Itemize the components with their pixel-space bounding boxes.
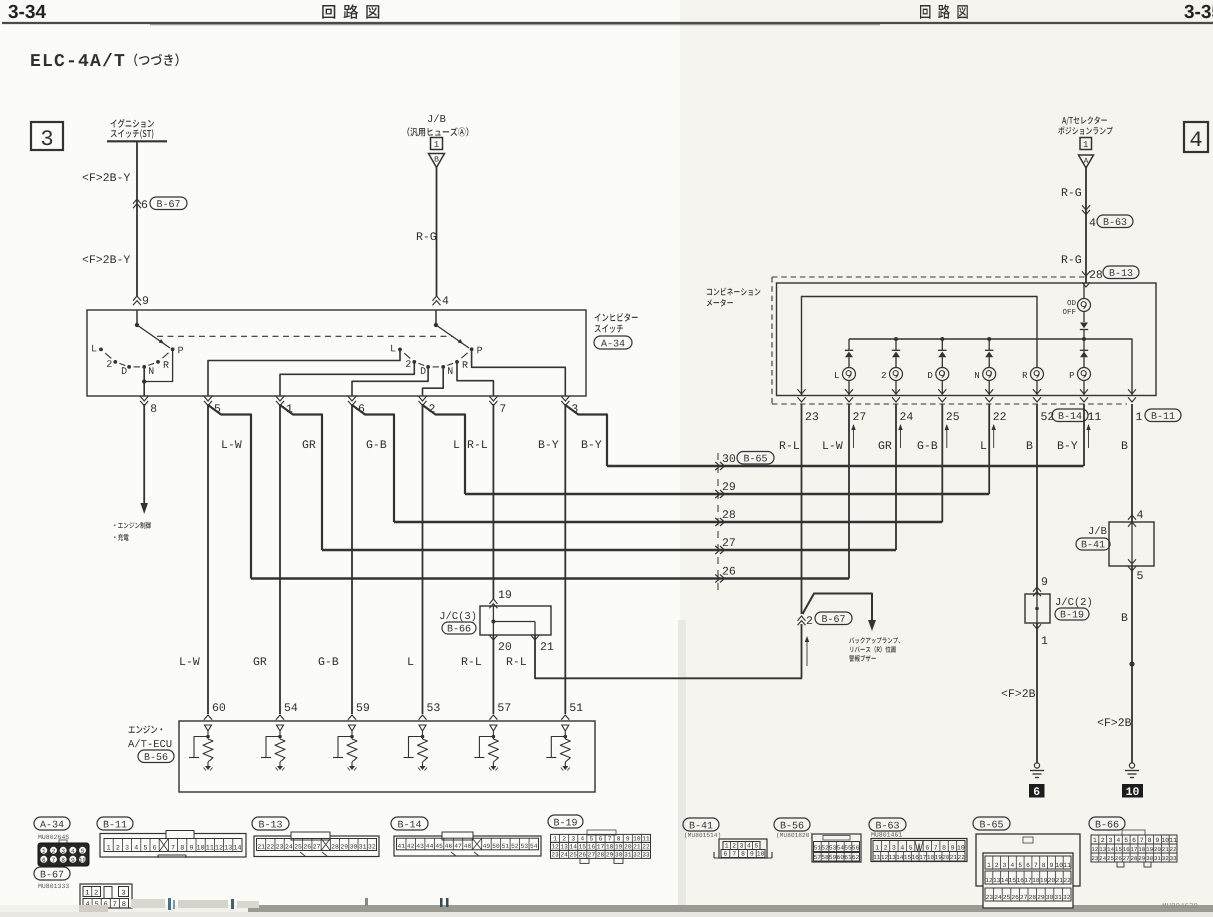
direction arrow up [806,640,808,666]
ECU pin 54 [276,715,284,720]
direction arrows [853,428,855,448]
wire J/B to ground 10 [1131,566,1133,763]
ECU pin 51 [561,715,569,720]
bus 29 (L) [465,493,989,495]
inhibitor switch label [595,313,638,322]
wire label <F>2B-Y [83,173,130,181]
meter pin 52 [1033,389,1041,394]
bus connector 27 [715,546,720,554]
bus connector 26 [715,575,720,583]
meter pin 24 [892,389,900,394]
lamp feed bus [849,339,1132,395]
inhibitor switch bottom pins [140,396,148,401]
header title left 回路図 [322,4,379,18]
meter solid box [777,283,1157,396]
bus 26 (L-W) [251,577,849,579]
ground 10 [1129,763,1134,768]
ECU pin 57 [489,715,497,720]
mechanical link dashed [157,335,452,337]
left page background [0,0,680,912]
wire label R-G [1062,188,1081,196]
connector legend B-66 [1089,817,1125,830]
lamp 2 with diode [895,339,897,350]
fuse triangle B [429,154,445,168]
wafer2 contact wires to pins [208,349,400,396]
meter pin 11 [1080,389,1088,394]
pin 8 wire to engine control [143,404,145,505]
connector 6 (B-67) [133,199,141,204]
wafer1 N-P wire to pin 8 [144,351,172,382]
bottom scan band [248,905,1213,912]
J/C(3) internal [491,620,495,624]
wire selector lamp down [1085,168,1087,283]
ECU pin 53 [419,715,427,720]
wire label R-G 2 [1062,255,1081,263]
wire pin1 to ECU54 (GR) [279,404,281,714]
page number 3-34 [8,5,46,19]
meter entry chevrons pin 28 [1082,271,1090,276]
J/C(2) B-19 [1033,587,1041,592]
connector 4 (B-63) [1082,205,1090,210]
bus 28 (G-B) [394,521,942,523]
J/C(3) pin 19 [489,599,497,604]
connector legend B-67 [34,867,70,880]
zone box 3 [31,122,63,150]
branch wires to inter-page buses [208,405,251,579]
bus 27 (GR) [322,549,896,551]
connector legend B-65 [973,817,1010,830]
wire ignition to pin 9 [136,141,138,296]
A/T selector position lamp label [1062,116,1107,125]
ECU pin 59 [348,715,356,720]
upper wire labels [222,440,241,448]
combination meter dashed box [772,276,1086,278]
lamp D with diode [941,339,943,350]
wire label R-G [417,232,436,240]
engine control note [114,522,151,529]
header rule [2,22,1213,24]
bus 30 (B-Y) [607,465,1084,467]
wire pin2 to ECU53 (L) [422,404,424,714]
connector legend B-11 [97,817,133,830]
meter pin 1 [1128,389,1136,394]
wire J/B to pin 4 [436,168,438,297]
junction connector J/C(3) B-66 [480,606,551,635]
wire pin5 to ECU60 (L-W) [207,404,209,714]
bus connector 30 (B-65) [715,462,720,470]
wire pin7 to J/C(3) 19 (R-L) [492,404,494,600]
wire into wafer2 pivot [435,310,437,325]
bus connector 28 [715,518,720,526]
wire pin3 to ECU51 (B-Y) [564,404,566,714]
right page background [680,0,1213,912]
ignition switch (ST) label [111,119,154,128]
page number 3-35 [1184,5,1213,19]
wire pin6 to ECU59 (G-B) [351,404,353,714]
wire J/C2 to ground 6 [1036,623,1038,763]
wire into wafer1 pivot [136,310,138,325]
J/C(3) pin 21 wire to meter R-L [531,635,539,640]
J/B (fuse A) label [428,114,446,122]
meter pin wires down [801,404,803,614]
ECU box B-56 [179,721,595,792]
connector 2 (B-67) [798,616,806,621]
OD diode [1083,312,1085,322]
R-L branch to back-up lamp buzzer [803,594,873,623]
inhibitor switch box A-34 [87,310,586,396]
meter pin 22 [985,389,993,394]
switch wafer 1 (ST circuit) [135,323,139,327]
connector legend A-34 [34,817,70,830]
selector lamp terminal box 1 [1080,138,1092,150]
ECU pin 60 [204,715,212,720]
meter pin 27 [845,389,853,394]
lower wire labels [180,657,199,665]
pin 9 [133,296,141,301]
J/B B-41 [1137,510,1143,518]
combination meter label [707,288,760,296]
OD OFF lamp [1083,283,1085,298]
header title right 回路図 [920,4,968,18]
bus connector 29 [715,490,720,498]
pin 4 [433,296,441,301]
J/B terminal box 1 [431,138,443,150]
wire label <F>2B-Y lower [83,255,130,263]
connector legend B-41 [683,818,719,831]
connector legend B-13 [252,817,289,830]
ignition switch terminal bar [107,140,167,142]
lamp R [802,297,1038,396]
zone box 4 [1184,122,1208,152]
right wire labels [780,441,799,449]
meter pin 23 [798,389,806,394]
ground 6 [1034,763,1039,768]
connector legend B-56 [774,818,810,831]
ECU label [129,725,163,733]
lamp L with diode [848,339,850,350]
connector legend B-14 [391,817,428,830]
connector legend B-63 [869,818,906,831]
page boundary dashed line [717,453,719,592]
lamp P with diode [1080,349,1088,351]
selector lamp triangle A [1079,155,1094,168]
diagram title ELC-4A/T (つづき) [31,53,124,66]
switch wafer 2 (lamp circuit) [434,323,438,327]
scan artifacts [79,905,108,912]
meter pin 25 [938,389,946,394]
connector legend B-19 [548,815,583,828]
connector 28 (B-13) [1090,270,1102,278]
J/C(3) pin 20 wire to ECU57 [489,635,497,640]
lamp N with diode [988,339,990,350]
